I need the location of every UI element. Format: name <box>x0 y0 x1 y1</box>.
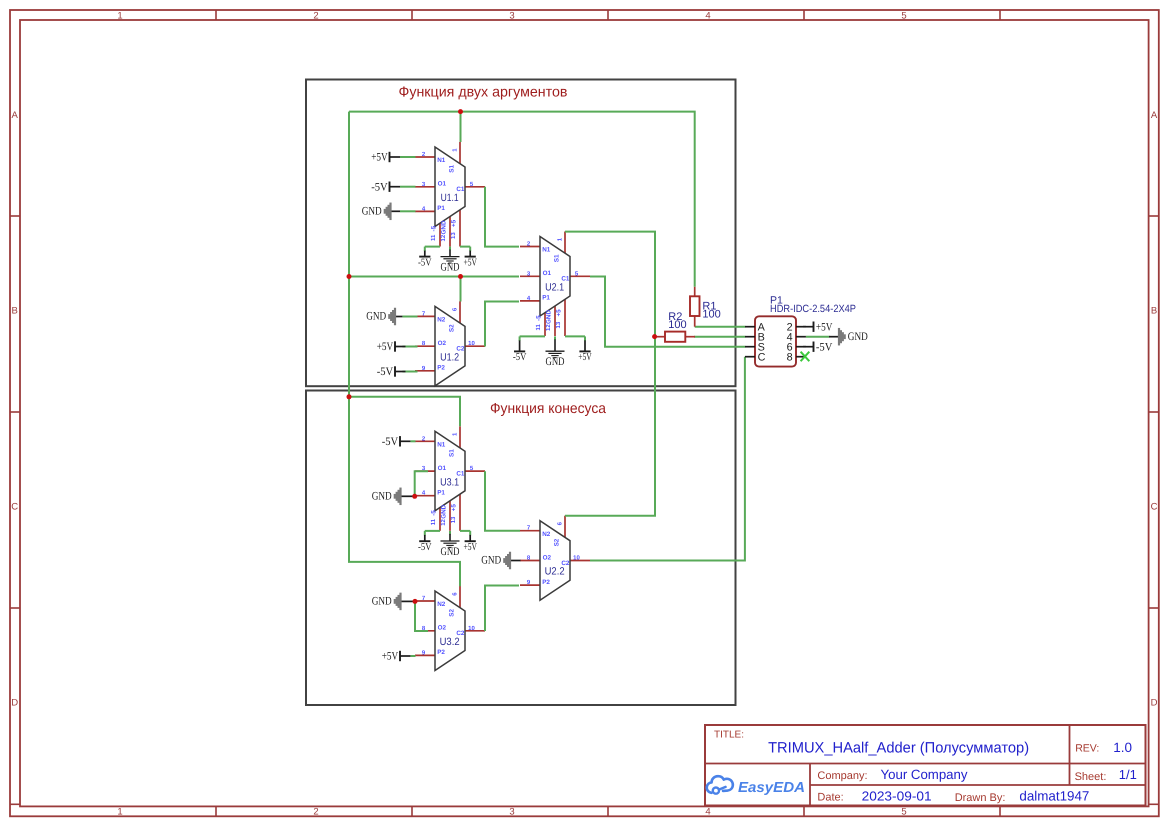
svg-text:100: 100 <box>702 309 720 321</box>
svg-text:B: B <box>12 306 18 317</box>
svg-text:Company:: Company: <box>817 770 867 782</box>
svg-text:S1: S1 <box>553 254 560 262</box>
svg-text:5: 5 <box>901 807 906 818</box>
svg-text:GND: GND <box>481 555 501 567</box>
svg-text:GND: GND <box>372 491 392 503</box>
svg-text:12: 12 <box>545 324 552 331</box>
svg-text:+5: +5 <box>451 219 458 227</box>
svg-text:+5V: +5V <box>377 341 394 353</box>
svg-text:B: B <box>1151 306 1157 317</box>
svg-text:U1.2: U1.2 <box>440 351 459 363</box>
svg-text:10: 10 <box>573 555 580 562</box>
svg-text:+5V: +5V <box>816 321 833 333</box>
svg-text:TRIMUX_HAalf_Adder (Полусуммат: TRIMUX_HAalf_Adder (Полусумматор) <box>768 739 1029 756</box>
svg-text:Функция конесуса: Функция конесуса <box>490 401 607 417</box>
svg-text:+5V: +5V <box>371 152 388 164</box>
svg-text:O1: O1 <box>438 181 447 188</box>
svg-text:P2: P2 <box>437 365 445 372</box>
svg-text:C: C <box>758 352 766 364</box>
svg-text:1.0: 1.0 <box>1113 740 1132 755</box>
svg-text:-5V: -5V <box>816 341 833 353</box>
svg-text:1: 1 <box>117 10 122 21</box>
svg-text:U2.2: U2.2 <box>545 566 565 578</box>
svg-text:GND: GND <box>441 262 460 274</box>
svg-text:U3.2: U3.2 <box>440 636 460 648</box>
svg-text:8: 8 <box>787 352 793 364</box>
svg-text:13: 13 <box>450 232 457 239</box>
svg-text:-5V: -5V <box>418 257 432 268</box>
svg-text:N2: N2 <box>437 601 446 608</box>
svg-text:O2: O2 <box>438 340 447 347</box>
svg-text:S2: S2 <box>553 538 560 546</box>
svg-text:S2: S2 <box>448 609 455 617</box>
svg-text:-5V: -5V <box>371 181 388 193</box>
svg-text:GND: GND <box>441 546 460 558</box>
svg-text:GND: GND <box>372 596 392 608</box>
svg-text:12: 12 <box>440 518 447 525</box>
svg-text:-5: -5 <box>536 315 543 321</box>
svg-text:D: D <box>1151 698 1158 709</box>
svg-text:N2: N2 <box>542 531 551 538</box>
svg-text:S1: S1 <box>448 449 455 457</box>
svg-text:S1: S1 <box>448 165 455 173</box>
svg-text:C: C <box>11 502 18 513</box>
svg-text:N1: N1 <box>437 157 446 164</box>
svg-text:4: 4 <box>705 10 710 21</box>
svg-text:5: 5 <box>901 10 906 21</box>
svg-text:11: 11 <box>430 518 437 525</box>
svg-text:-5V: -5V <box>377 366 394 378</box>
svg-text:+5V: +5V <box>382 651 399 663</box>
svg-text:+5: +5 <box>556 309 563 317</box>
svg-text:GND: GND <box>848 331 868 343</box>
svg-text:10: 10 <box>468 340 475 347</box>
svg-text:+5V: +5V <box>578 352 592 363</box>
svg-text:D: D <box>11 698 18 709</box>
svg-text:O2: O2 <box>543 554 552 561</box>
svg-text:+5: +5 <box>451 504 458 512</box>
svg-text:Функция двух аргументов: Функция двух аргументов <box>399 84 568 100</box>
svg-text:A: A <box>12 110 19 121</box>
svg-text:U2.1: U2.1 <box>545 282 564 294</box>
svg-text:-5V: -5V <box>382 436 399 448</box>
svg-text:N1: N1 <box>542 247 551 254</box>
svg-text:Date:: Date: <box>817 792 843 804</box>
svg-text:GND: GND <box>441 504 448 518</box>
svg-text:-5: -5 <box>431 225 438 231</box>
svg-text:P1: P1 <box>542 295 550 302</box>
svg-text:GND: GND <box>546 310 553 324</box>
svg-text:-5V: -5V <box>418 542 432 553</box>
svg-text:O2: O2 <box>438 625 447 632</box>
svg-text:4: 4 <box>705 807 710 818</box>
svg-text:13: 13 <box>555 321 562 328</box>
svg-text:N2: N2 <box>437 317 446 324</box>
svg-text:GND: GND <box>546 356 565 368</box>
svg-text:GND: GND <box>441 220 448 234</box>
svg-text:P2: P2 <box>542 579 550 586</box>
svg-text:3: 3 <box>509 10 514 21</box>
svg-text:13: 13 <box>450 516 457 523</box>
svg-text:11: 11 <box>430 234 437 241</box>
svg-text:11: 11 <box>535 323 542 330</box>
svg-text:O1: O1 <box>438 465 447 472</box>
svg-text:GND: GND <box>366 311 386 323</box>
svg-text:12: 12 <box>440 234 447 241</box>
svg-text:TITLE:: TITLE: <box>714 730 744 741</box>
svg-text:A: A <box>1151 110 1158 121</box>
svg-text:100: 100 <box>668 319 686 331</box>
svg-text:P1: P1 <box>437 205 445 212</box>
svg-text:+5V: +5V <box>463 257 477 268</box>
svg-text:3: 3 <box>509 807 514 818</box>
svg-text:GND: GND <box>362 206 382 218</box>
svg-text:dalmat1947: dalmat1947 <box>1019 789 1089 804</box>
svg-text:1/1: 1/1 <box>1119 767 1137 782</box>
svg-text:HDR-IDC-2.54-2X4P: HDR-IDC-2.54-2X4P <box>770 303 856 315</box>
svg-text:Sheet:: Sheet: <box>1075 771 1107 783</box>
svg-text:1: 1 <box>117 807 122 818</box>
svg-text:Your Company: Your Company <box>881 767 968 782</box>
svg-text:2: 2 <box>313 10 318 21</box>
svg-text:REV:: REV: <box>1075 742 1099 754</box>
svg-text:N1: N1 <box>437 442 446 449</box>
svg-text:S2: S2 <box>448 324 455 332</box>
svg-text:+5V: +5V <box>463 542 477 553</box>
svg-text:2023-09-01: 2023-09-01 <box>862 788 932 803</box>
svg-text:U3.1: U3.1 <box>440 476 459 488</box>
svg-text:O1: O1 <box>543 270 552 277</box>
svg-text:2: 2 <box>313 807 318 818</box>
svg-text:EasyEDA: EasyEDA <box>738 780 805 796</box>
svg-text:-5: -5 <box>431 510 438 516</box>
svg-text:P2: P2 <box>437 649 445 656</box>
svg-text:-5V: -5V <box>513 352 527 363</box>
svg-text:P1: P1 <box>437 490 445 497</box>
svg-text:10: 10 <box>468 625 475 632</box>
svg-text:U1.1: U1.1 <box>441 192 459 204</box>
svg-text:C: C <box>1151 502 1158 513</box>
svg-text:Drawn By:: Drawn By: <box>955 792 1006 804</box>
